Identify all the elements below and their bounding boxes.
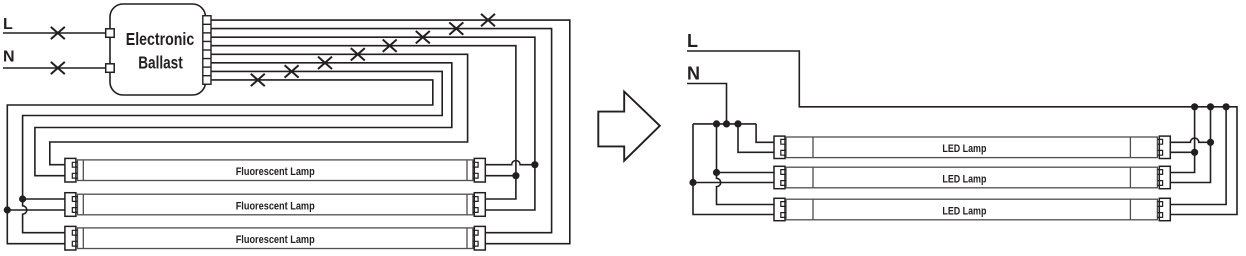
svg-text:Fluorescent Lamp: Fluorescent Lamp — [236, 166, 315, 178]
svg-text:N: N — [687, 64, 700, 84]
svg-text:LED Lamp: LED Lamp — [942, 143, 986, 155]
svg-text:Ballast: Ballast — [138, 53, 183, 73]
svg-text:Fluorescent Lamp: Fluorescent Lamp — [236, 234, 315, 246]
svg-text:Electronic: Electronic — [126, 29, 195, 49]
svg-text:N: N — [3, 49, 15, 66]
svg-text:LED Lamp: LED Lamp — [942, 205, 986, 217]
svg-text:Fluorescent Lamp: Fluorescent Lamp — [236, 200, 315, 212]
svg-text:L: L — [687, 31, 698, 51]
svg-text:L: L — [3, 16, 13, 33]
svg-text:LED Lamp: LED Lamp — [942, 173, 986, 185]
